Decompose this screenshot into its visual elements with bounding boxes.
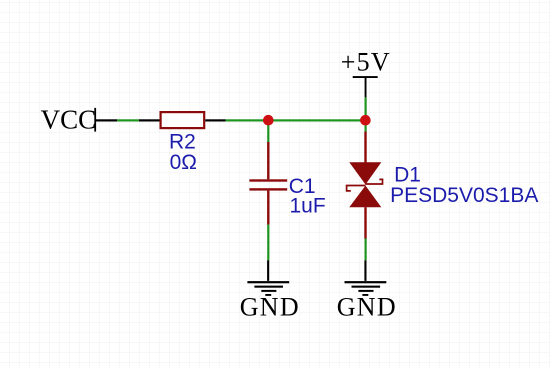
power port +5V: [341, 48, 390, 98]
svg-text:PESD5V0S1BA: PESD5V0S1BA: [390, 184, 538, 207]
wire +5V to node B: [365, 97, 367, 120]
svg-text:1uF: 1uF: [290, 194, 326, 217]
diode D1 (TVS): [347, 132, 383, 239]
wire C1 to GND left: [267, 225, 269, 261]
junction node A: [263, 115, 274, 126]
wire node A down: [267, 120, 269, 142]
svg-text:0Ω: 0Ω: [170, 151, 197, 174]
wire VCC to R2: [96, 119, 160, 121]
resistor R2: [161, 112, 205, 128]
wire R2 to node A: [205, 119, 268, 121]
svg-text:VCC: VCC: [41, 105, 97, 135]
ground left: [240, 260, 299, 321]
junction node B: [360, 115, 371, 126]
svg-text:GND: GND: [240, 293, 299, 322]
svg-text:D1: D1: [394, 163, 421, 186]
capacitor C1: [249, 142, 287, 225]
port VCC: [41, 105, 97, 135]
wire node A to node B: [268, 119, 365, 121]
svg-text:GND: GND: [337, 293, 396, 322]
svg-text:+5V: +5V: [341, 48, 390, 77]
wire D1 to GND right: [365, 239, 367, 261]
wire node B down: [365, 120, 367, 131]
ground right: [337, 260, 396, 321]
